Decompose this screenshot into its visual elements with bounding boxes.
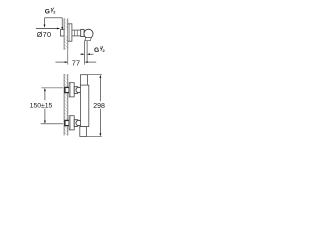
svg-text:77: 77 (72, 58, 81, 67)
outlet neck under ball (85, 38, 91, 41)
dimension 77 (wall to outlet) (55, 50, 96, 68)
label G 1/2 right (outlet thread) (94, 45, 106, 54)
outlet pipe G1/2 (top view) (85, 41, 88, 63)
escutcheon flange top (front view) (69, 83, 74, 97)
svg-text:Ø70: Ø70 (37, 30, 52, 39)
union nut top (front view) (74, 87, 81, 94)
ball check-valve housing (top view) (84, 29, 93, 38)
in-wall G1/2 fitting (behind wall, top view) (60, 30, 64, 36)
union nut (top view) (81, 30, 84, 37)
svg-text:G: G (94, 47, 99, 54)
svg-text:G: G (45, 8, 50, 15)
label G 1/2 top (45, 7, 57, 16)
wall front/side view (hatched strip) (64, 74, 68, 135)
dimension 150±15 (30, 88, 63, 124)
temperature handle (top end) (81, 75, 88, 85)
dimension 298 (overall length) (86, 75, 105, 137)
s-union tube and nut facets (top view) (72, 30, 81, 36)
G1/2 outlet arrows (80, 53, 93, 55)
in-wall union nut top (front view) (65, 87, 69, 92)
dimension Ø70 (escutcheon) (36, 28, 60, 39)
svg-text:298: 298 (93, 103, 105, 110)
wall top view (hatched strip) (64, 18, 68, 49)
volume handle (bottom end) (80, 127, 87, 137)
thermostat body (rotated front view) (81, 85, 89, 127)
union nut bottom (front view) (74, 120, 81, 127)
leader bracket with two down arrows (G 1/2 to wall threads) (44, 18, 64, 30)
in-wall union nut bottom (front view) (65, 120, 69, 125)
svg-text:150±15: 150±15 (30, 102, 53, 109)
escutcheon flange (top view, edge on) (68, 24, 72, 41)
escutcheon flange bottom (front view) (69, 116, 74, 130)
